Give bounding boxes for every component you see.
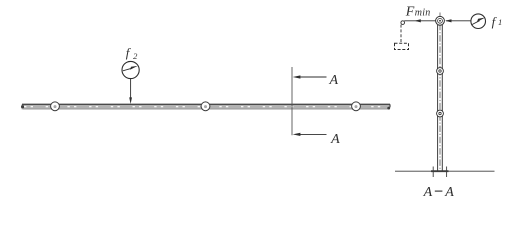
dial indicator f1 [471, 14, 486, 29]
column right edge [441, 25, 443, 171]
pulley [401, 21, 405, 25]
column top pivot (beam cross-section) [436, 16, 445, 25]
column left edge [437, 25, 439, 171]
svg-text:A: A [330, 132, 340, 147]
svg-text:min: min [415, 8, 431, 19]
support roller 3 [352, 102, 361, 111]
force arrowhead Fmin [414, 19, 420, 22]
svg-text:A: A [329, 73, 339, 88]
bearing circle lower [437, 110, 444, 117]
svg-text:A: A [444, 185, 454, 200]
support roller 1 [51, 102, 60, 111]
beam left end tip [21, 105, 24, 108]
column base plate [431, 170, 449, 172]
weight (dashed rectangle) [395, 43, 409, 49]
section arrow bottom [293, 133, 327, 136]
svg-text:1: 1 [498, 17, 502, 27]
svg-text:F: F [405, 5, 415, 20]
svg-text:2: 2 [133, 51, 138, 61]
dial indicator f2 [122, 61, 139, 78]
force wire (left of column) [404, 20, 436, 22]
section line A-A [291, 67, 293, 135]
beam body (straightedge, main view) [22, 104, 391, 109]
f2 stem arrowhead [129, 97, 132, 104]
beam centerline (white dash-dot) [24, 106, 388, 108]
beam right end tip [389, 105, 390, 109]
section arrow top [293, 75, 327, 78]
bearing circle upper [437, 68, 444, 75]
f2 stem wire [130, 79, 132, 98]
indicator f1 wire [446, 20, 471, 22]
support roller 2 [201, 102, 210, 111]
weight cord (dashed) [400, 25, 402, 43]
ground line [395, 170, 495, 172]
column centerline [439, 13, 441, 171]
base tick right [446, 167, 448, 178]
base tick left [432, 167, 434, 178]
svg-text:A: A [423, 185, 433, 200]
f1 wire arrowhead [445, 19, 451, 22]
